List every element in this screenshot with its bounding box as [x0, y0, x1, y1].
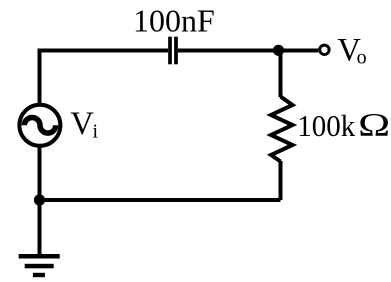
svg-text:100k: 100k — [297, 108, 355, 143]
svg-text:o: o — [357, 47, 367, 69]
svg-text:Ω: Ω — [358, 108, 390, 144]
svg-text:V: V — [70, 106, 94, 142]
svg-text:100nF: 100nF — [133, 3, 215, 39]
svg-text:i: i — [93, 121, 99, 143]
